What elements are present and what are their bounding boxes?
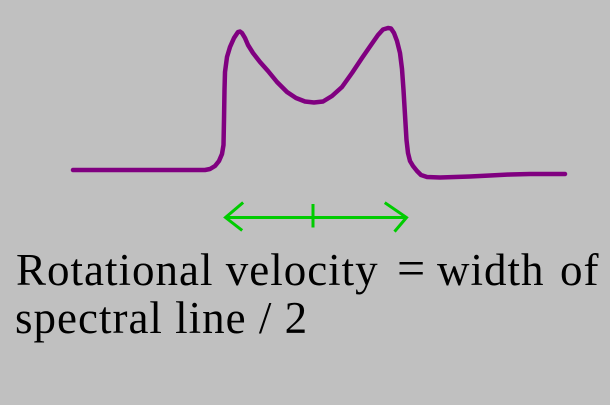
- left arrowhead: [226, 204, 243, 230]
- svg-text:of: of: [560, 245, 600, 295]
- center tick: [312, 204, 315, 228]
- right arrowhead: [386, 204, 407, 231]
- width arrow shaft: [225, 216, 407, 219]
- svg-text:Rotational velocity: Rotational velocity: [16, 245, 379, 295]
- svg-text:spectral line / 2: spectral line / 2: [15, 293, 308, 343]
- svg-text:width: width: [437, 245, 545, 295]
- svg-text:=: =: [397, 240, 426, 296]
- spectral line profile curve (double-peaked): [73, 28, 565, 178]
